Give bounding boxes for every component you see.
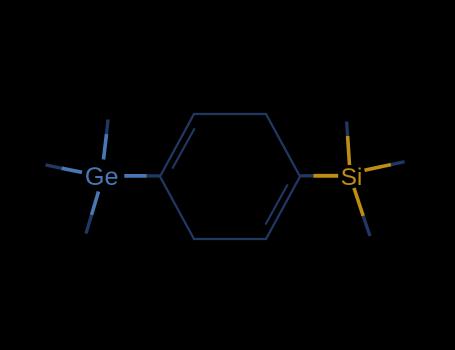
Si right methyl bond bright half: [365, 165, 392, 171]
Si down methyl bond navy half: [363, 216, 370, 236]
Ge-C(ring) bond navy half: [147, 174, 161, 177]
Si right methyl bond navy half: [391, 162, 405, 165]
Ge left methyl bond navy half: [46, 165, 62, 168]
Ge down methyl bond navy half: [86, 215, 92, 234]
Si down methyl bond bright half: [354, 188, 363, 216]
Si up methyl bond bright half: [348, 136, 350, 165]
Ge left methyl bond bright half: [62, 168, 83, 172]
wire double bond inner line (lower-right): [265, 184, 287, 224]
Si-C(ring) bond bright half: [314, 174, 339, 178]
Si up methyl bond navy half: [347, 122, 348, 137]
Ge down methyl bond bright half: [92, 192, 99, 216]
wire double bond inner line (upper-left): [172, 128, 194, 168]
svg-text:Ge: Ge: [85, 163, 119, 191]
svg-text:Si: Si: [341, 164, 363, 191]
Ge up methyl bond bright half: [104, 134, 107, 160]
Ge-C(ring) bond bright half: [124, 174, 146, 178]
Ge up methyl bond navy half: [107, 120, 109, 135]
Si-C(ring) bond navy half: [301, 174, 314, 177]
benzene ring outline: [160, 114, 300, 239]
benzene ring C1-C6: [160, 114, 300, 239]
